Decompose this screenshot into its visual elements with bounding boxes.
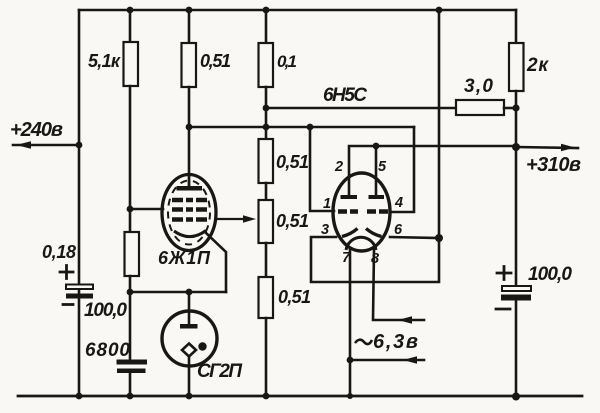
- tube 6Н5С anode bar left: [341, 195, 358, 199]
- tube 6Ж1П grid row 3: [172, 217, 207, 222]
- resistor R 0,51 first: [182, 43, 197, 87]
- node ground SG2P: [186, 393, 193, 400]
- svg-text:0,51: 0,51: [278, 287, 311, 307]
- svg-text:6,3в: 6,3в: [373, 331, 418, 353]
- tube СГ2П cathode diamond: [182, 344, 196, 357]
- node pentode anode / grid line: [186, 124, 193, 131]
- svg-text:+310в: +310в: [526, 154, 581, 176]
- svg-text:6Ж1П: 6Ж1П: [158, 248, 211, 268]
- label cap polarity plus right: [497, 267, 511, 280]
- wire pin1 drop: [310, 127, 334, 211]
- label net ~6,3в tilde: [355, 340, 372, 344]
- tube 6Ж1П inner dashed envelope: [168, 181, 210, 245]
- node pin1 tap: [307, 124, 314, 131]
- wire heater pin7: [349, 249, 352, 396]
- svg-text:6800: 6800: [85, 340, 130, 361]
- wire pin3 loop: [311, 237, 439, 282]
- svg-text:3,0: 3,0: [464, 76, 493, 97]
- wire 0.18 to 6800 cap: [129, 276, 132, 360]
- arrow +240v: [16, 141, 31, 149]
- node +310v junction: [512, 143, 520, 151]
- tube 6Ж1П pentode envelope: [162, 175, 216, 251]
- wire heater pin8: [373, 250, 424, 320]
- svg-text:1: 1: [323, 196, 331, 212]
- wire SG2P cathode lead: [188, 356, 191, 396]
- arrow +310v: [561, 144, 575, 151]
- wire pentode cathode down: [206, 233, 226, 292]
- svg-text:6Н5С: 6Н5С: [323, 85, 367, 106]
- tube СГ2П anode bar: [180, 324, 198, 329]
- wire 0.1 chain top: [265, 10, 268, 43]
- label cap polarity minus left: [63, 303, 73, 306]
- node divider tap grid line: [263, 124, 270, 131]
- wire heater lower tap: [350, 359, 424, 362]
- tube 6Ж1П grid row 2: [172, 207, 207, 212]
- tube 6Ж1П cathode arc: [174, 231, 206, 237]
- tube 6Ж1П anode bar: [177, 186, 203, 191]
- wire pin6 lead: [390, 237, 439, 238]
- svg-text:7: 7: [342, 250, 351, 266]
- svg-text:5: 5: [378, 159, 387, 175]
- tube 6Ж1П grid row 1: [172, 198, 207, 203]
- node pentode grid: [127, 206, 134, 213]
- node 3.0 2k junction: [512, 104, 519, 111]
- node top rail R0.51: [186, 7, 193, 14]
- node ground heater: [347, 393, 353, 399]
- wire pentode cathode to bias node: [130, 291, 226, 294]
- node ground divider: [263, 393, 270, 400]
- node top rail cathode feed: [436, 7, 443, 14]
- svg-text:8: 8: [371, 251, 380, 267]
- wire right cap to ground: [515, 301, 518, 397]
- wire 6800 to ground: [129, 373, 132, 396]
- svg-text:6: 6: [394, 222, 403, 238]
- wire 0.51 to pentode anode: [188, 87, 191, 187]
- node ground 6800: [127, 393, 134, 400]
- node top rail R5.1k: [127, 7, 134, 14]
- wire divider A-B: [265, 183, 268, 200]
- wire bottom rail (ground bus): [18, 395, 582, 398]
- wire left rail +240v bus: [78, 10, 81, 396]
- svg-text:5,1к: 5,1к: [88, 51, 121, 71]
- svg-text:0,18: 0,18: [42, 242, 76, 262]
- wire 5.1k chain top: [129, 10, 132, 42]
- arrow heater upper: [398, 316, 412, 323]
- wire 0.51 first chain top: [188, 10, 191, 43]
- svg-text:0,51: 0,51: [276, 152, 309, 172]
- tube 6Н5С cathode arc right: [366, 229, 382, 237]
- svg-text:3: 3: [321, 222, 329, 238]
- node heater lower tap: [347, 357, 354, 364]
- resistor R 0,1: [259, 43, 274, 87]
- resistor R 0,18: [125, 232, 140, 276]
- svg-text:2: 2: [334, 159, 343, 175]
- wire 2k bottom to +310 node and cap: [515, 91, 518, 286]
- svg-text:+240в: +240в: [10, 119, 63, 141]
- capacitor C 100,0 right: [501, 286, 531, 301]
- node bias net bottom 0.18: [127, 289, 134, 296]
- capacitor C 100,0 left: [66, 285, 93, 299]
- arrow pentode output to divider: [216, 215, 256, 222]
- label cap polarity plus left: [60, 266, 73, 279]
- wire anode line pin2: [349, 146, 517, 196]
- svg-text:2к: 2к: [526, 55, 549, 76]
- wire pin5 lead: [375, 146, 378, 196]
- resistor R 2к: [509, 43, 524, 91]
- tube СГ2П envelope: [162, 311, 217, 366]
- resistor R 5,1к: [124, 42, 139, 86]
- wire pin4 drop: [390, 127, 414, 212]
- tube 6Н5С envelope: [333, 173, 390, 251]
- node ground left rail: [76, 393, 83, 400]
- label cap polarity minus right: [496, 308, 510, 311]
- node top rail R0.1: [263, 7, 270, 14]
- tube 6Ж1П anode lead: [188, 175, 190, 187]
- svg-text:100,0: 100,0: [528, 264, 572, 285]
- svg-text:100,0: 100,0: [84, 300, 127, 321]
- wire top rail: [79, 9, 516, 12]
- tube 6Н5С cathode arc left: [342, 229, 358, 237]
- arrow heater lower: [403, 356, 417, 363]
- wire 6N5S plate feed line: [266, 107, 456, 110]
- resistor R 3,0: [456, 100, 504, 115]
- svg-text:0,51: 0,51: [200, 51, 231, 71]
- svg-text:4: 4: [394, 195, 403, 211]
- tube 6Н5С grid dashes: [338, 209, 388, 214]
- wire +310v stub: [517, 147, 578, 148]
- svg-text:0,51: 0,51: [276, 211, 309, 231]
- resistor R 0,51 divider C: [259, 277, 274, 318]
- wire grid line from pentode anode: [189, 126, 414, 129]
- wire cathode feed vertical: [438, 10, 441, 238]
- wire pentode grid lead: [130, 208, 163, 211]
- wire 0.1 bottom to divider: [265, 87, 268, 139]
- svg-text:0,1: 0,1: [277, 52, 297, 71]
- node pin5 anode line: [373, 143, 380, 150]
- node pin6 cathode join: [435, 234, 443, 242]
- tube 6Н5С anode bar right: [369, 195, 385, 199]
- svg-text:СГ2П: СГ2П: [197, 361, 242, 382]
- capacitor C 6800: [117, 360, 148, 374]
- wire SG2P anode lead: [188, 292, 191, 327]
- node 0.1 / 6N5S line: [263, 105, 270, 112]
- wire 2k branch top: [515, 10, 518, 43]
- node ground right cap: [512, 393, 520, 401]
- node +240v tap: [76, 142, 83, 149]
- node SG2P anode tap: [186, 289, 193, 296]
- wire 5.1k to 0.18: [129, 86, 132, 232]
- wire +240v stub: [13, 144, 79, 147]
- tube СГ2П gas dot: [198, 342, 206, 350]
- wire divider C to ground: [265, 318, 268, 396]
- wire 3.0 to 2k node: [504, 107, 516, 110]
- resistor R 0,51 divider B: [259, 200, 274, 243]
- tube 6Н5С heater arch: [346, 237, 376, 250]
- wire divider B-C: [265, 243, 268, 277]
- resistor R 0,51 divider A: [259, 139, 274, 183]
